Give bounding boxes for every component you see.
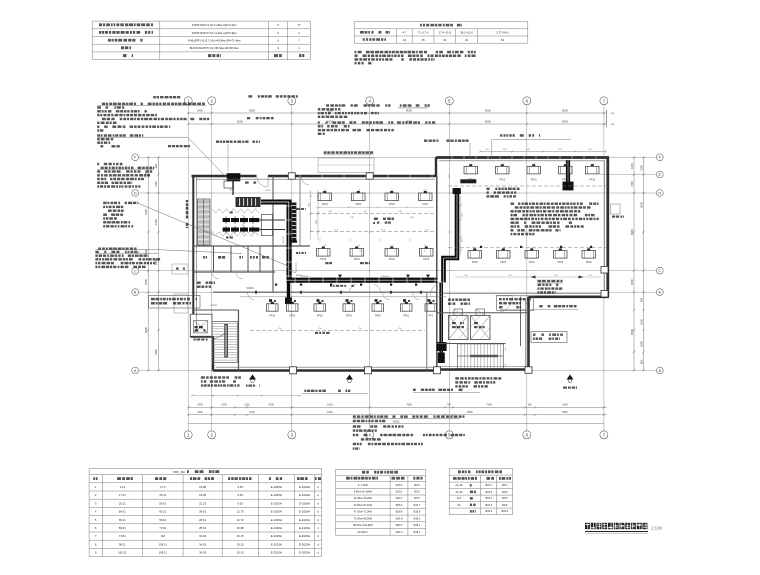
svg-text:FP33: FP33: [355, 203, 361, 206]
svg-text:FP1: FP1: [429, 315, 434, 318]
svg-text:22.4Kw<33.2kW: 22.4Kw<33.2kW: [354, 497, 373, 500]
svg-text:8000: 8000: [562, 109, 568, 113]
svg-text:8000: 8000: [630, 229, 634, 235]
svg-text:Φ22.2: Φ22.2: [485, 504, 492, 507]
svg-text:1:100: 1:100: [651, 525, 663, 530]
svg-text:FP22: FP22: [586, 261, 592, 264]
svg-text:u41: u41: [533, 163, 536, 165]
svg-text:P1: P1: [242, 216, 244, 218]
svg-text:32: 32: [443, 38, 447, 42]
svg-text:Φ25.4: Φ25.4: [396, 504, 403, 507]
svg-text:Φ19.1: Φ19.1: [396, 491, 403, 494]
svg-text:156.11: 156.11: [159, 542, 168, 546]
svg-text:4.7: 4.7: [402, 31, 406, 35]
svg-text:8200: 8200: [237, 120, 243, 124]
svg-text:Φ15.9: Φ15.9: [501, 510, 508, 513]
svg-text:FP50: FP50: [317, 315, 323, 318]
svg-text:Φ19.1: Φ19.1: [413, 517, 420, 520]
svg-text:400: 400: [154, 163, 158, 168]
svg-text:u40: u40: [391, 190, 394, 192]
svg-text:500: 500: [528, 404, 533, 407]
svg-text:1100: 1100: [154, 181, 158, 187]
svg-text:FP19: FP19: [423, 258, 429, 261]
svg-text:203: 203: [554, 275, 557, 277]
svg-text:E-2426H: E-2426H: [299, 526, 310, 530]
svg-text:E-1626H: E-1626H: [299, 510, 310, 514]
svg-text:20.1: 20.1: [588, 275, 592, 277]
svg-text:D: D: [658, 191, 661, 195]
svg-text:FP19: FP19: [320, 258, 326, 261]
svg-text:PY-3F: PY-3F: [296, 221, 298, 227]
svg-text:28.61: 28.61: [199, 518, 206, 522]
svg-text:E-3025H: E-3025H: [299, 542, 310, 546]
svg-text:P2: P2: [242, 225, 244, 227]
svg-text:8100: 8100: [562, 404, 568, 407]
svg-text:E-1025H: E-1025H: [271, 493, 282, 497]
svg-text:98.2Kw<104.6kW: 98.2Kw<104.6kW: [353, 524, 373, 527]
svg-text:FP19: FP19: [354, 258, 360, 261]
svg-text:15.88: 15.88: [199, 485, 206, 489]
svg-text:Φ15.9: Φ15.9: [413, 511, 420, 514]
svg-text:1400: 1400: [144, 209, 148, 215]
svg-text:FP11: FP11: [589, 179, 595, 182]
svg-text:7400: 7400: [486, 404, 492, 407]
svg-text:FP25: FP25: [500, 261, 506, 264]
svg-text:25.11: 25.11: [119, 501, 126, 505]
svg-text:9.53: 9.53: [237, 485, 243, 489]
svg-text:98.11: 98.11: [119, 542, 126, 546]
svg-text:12.70: 12.70: [237, 510, 244, 514]
svg-text:34.92: 34.92: [199, 542, 206, 546]
svg-text:W250: W250: [266, 190, 271, 192]
svg-text:E-2426H: E-2426H: [271, 526, 282, 530]
svg-text:2500: 2500: [639, 341, 643, 347]
svg-text:9.53: 9.53: [237, 501, 243, 505]
svg-text:Φ9.5: Φ9.5: [502, 504, 508, 507]
svg-text:2400: 2400: [154, 349, 158, 355]
svg-text:2400: 2400: [197, 411, 203, 414]
svg-text:Φ9.5: Φ9.5: [414, 484, 420, 487]
svg-text:114: 114: [457, 497, 462, 500]
svg-text:17.61: 17.61: [119, 493, 126, 497]
svg-text:400x250: 400x250: [301, 276, 310, 278]
svg-text:203: 203: [508, 275, 511, 277]
svg-text:Φ34.9: Φ34.9: [396, 524, 403, 527]
svg-text:E-1026H: E-1026H: [299, 493, 310, 497]
svg-text:56.61: 56.61: [159, 501, 166, 505]
svg-text:u40: u40: [358, 190, 361, 192]
svg-text:E-1026H: E-1026H: [299, 485, 310, 489]
svg-text:8100: 8100: [327, 404, 333, 407]
svg-text:W250: W250: [229, 190, 235, 192]
svg-text:FP32: FP32: [389, 203, 395, 206]
svg-text:BHXCV6L2P(7) KL=38.0kw kR=88.1: BHXCV6L2P(7) KL=38.0kw kR=88.1kw: [190, 46, 240, 50]
svg-text:FXDP140FVC KL=1.4kw GR=0.3kw: FXDP140FVC KL=1.4kw GR=0.3kw: [192, 31, 238, 35]
svg-text:FP51: FP51: [403, 315, 409, 318]
svg-text:33.0Kw<47.1kW: 33.0Kw<47.1kW: [354, 504, 373, 507]
svg-text:u41: u41: [391, 245, 394, 247]
svg-text:D: D: [134, 191, 137, 195]
svg-text:203: 203: [464, 275, 467, 277]
svg-text:900: 900: [639, 297, 643, 302]
svg-text:25: 25: [421, 38, 425, 42]
svg-text:E-3025H: E-3025H: [299, 551, 310, 555]
svg-text:u41: u41: [424, 245, 427, 247]
svg-text:M1020: M1020: [246, 287, 254, 290]
svg-text:19.15: 19.15: [237, 542, 244, 546]
svg-text:Φ19.1: Φ19.1: [413, 524, 420, 527]
svg-text:FP26: FP26: [472, 261, 478, 264]
svg-text:8500: 8500: [562, 120, 568, 124]
svg-text:2400: 2400: [197, 404, 203, 407]
svg-text:8000: 8000: [406, 109, 412, 113]
svg-text:156.11: 156.11: [118, 551, 127, 555]
svg-text:E-1625H: E-1625H: [271, 518, 282, 522]
svg-text:7500: 7500: [630, 181, 634, 187]
svg-text:Φ9.5: Φ9.5: [414, 491, 420, 494]
svg-text:u41: u41: [592, 163, 595, 165]
svg-text:FP13: FP13: [499, 179, 505, 182]
svg-text:250x120: 250x120: [283, 235, 285, 244]
svg-text:u41: u41: [324, 245, 327, 247]
svg-text:Φ9.5: Φ9.5: [502, 497, 508, 500]
svg-text:22.23: 22.23: [199, 501, 206, 505]
svg-text:7500: 7500: [639, 165, 643, 171]
svg-text:E-3125H: E-3125H: [271, 542, 282, 546]
svg-text:E-1626H: E-1626H: [299, 518, 310, 522]
svg-text:E: E: [659, 173, 662, 177]
svg-text:8200: 8200: [249, 109, 255, 113]
svg-text:77: 77: [297, 23, 301, 27]
svg-text:38.1~51.6: 38.1~51.6: [460, 31, 473, 35]
svg-text:3~7.4kW: 3~7.4kW: [358, 484, 369, 487]
svg-text:FP19: FP19: [389, 258, 395, 261]
svg-text:116: 116: [161, 534, 166, 538]
svg-text:15.88: 15.88: [237, 526, 244, 530]
svg-text:FP31: FP31: [531, 179, 537, 182]
svg-text:E-1025H: E-1025H: [271, 485, 282, 489]
svg-text:73.91: 73.91: [159, 526, 166, 530]
svg-text:9100: 9100: [327, 120, 333, 124]
svg-text:28.61: 28.61: [199, 510, 206, 514]
svg-text:7.1~17.4: 7.1~17.4: [418, 31, 429, 35]
svg-text:9.6Kw<Q<16kW: 9.6Kw<Q<16kW: [354, 491, 373, 494]
svg-text:Φ15.9: Φ15.9: [485, 491, 492, 494]
svg-text:Φ9.5: Φ9.5: [414, 497, 420, 500]
svg-text:28.61: 28.61: [199, 526, 206, 530]
svg-text:FP24: FP24: [529, 261, 535, 264]
svg-text:u40: u40: [424, 190, 427, 192]
svg-text:56.61: 56.61: [119, 510, 126, 514]
svg-text:8000: 8000: [144, 327, 148, 333]
svg-text:E-3125H: E-3125H: [271, 551, 282, 555]
svg-text:u40: u40: [324, 190, 327, 192]
svg-text:u41: u41: [565, 163, 568, 165]
svg-text:58.61: 58.61: [119, 526, 126, 530]
svg-text:Φ12.7: Φ12.7: [485, 484, 492, 487]
svg-text:Φ22.2: Φ22.2: [396, 497, 403, 500]
svg-text:C: C: [658, 269, 661, 273]
svg-text:VRV_RA: VRV_RA: [173, 470, 185, 474]
svg-text:24: 24: [403, 38, 407, 42]
svg-text:1000: 1000: [639, 319, 643, 325]
svg-text:FP14: FP14: [269, 315, 275, 318]
svg-text:700: 700: [447, 404, 452, 407]
svg-text:FP31: FP31: [422, 203, 428, 206]
svg-text:43~56: 43~56: [455, 491, 463, 494]
svg-text:M1522: M1522: [211, 305, 218, 307]
svg-text:E-1025H: E-1025H: [271, 501, 282, 505]
svg-text:9.53: 9.53: [237, 493, 243, 497]
svg-text:54: 54: [501, 38, 505, 42]
svg-text:8500: 8500: [630, 329, 634, 335]
svg-text:3.77~54.0: 3.77~54.0: [496, 31, 509, 35]
svg-text:2500: 2500: [639, 202, 643, 208]
svg-text:400x250: 400x250: [381, 276, 390, 278]
svg-text:6700: 6700: [249, 411, 255, 414]
svg-text:E-1625H: E-1625H: [271, 510, 282, 514]
svg-text:73.81: 73.81: [119, 534, 126, 538]
svg-text:FP23: FP23: [557, 261, 563, 264]
svg-text:Φ15.9: Φ15.9: [396, 484, 403, 487]
svg-text:Φ41.3: Φ41.3: [396, 531, 403, 534]
svg-text:2400: 2400: [197, 109, 203, 113]
svg-text:Φ9.5: Φ9.5: [502, 491, 508, 494]
svg-text:FN6x2PFYXL(17.0 kL=45.8kw 6R=7: FN6x2PFYXL(17.0 kL=45.8kw 6R=71.4kw: [188, 39, 242, 43]
svg-text:3.11: 3.11: [120, 485, 126, 489]
svg-text:1100: 1100: [244, 404, 250, 407]
svg-text:8000: 8000: [467, 411, 473, 414]
svg-text:47.1Kw<71.0kW: 47.1Kw<71.0kW: [354, 511, 373, 514]
svg-text:199.11: 199.11: [159, 551, 168, 555]
svg-text:1600: 1600: [630, 163, 634, 169]
svg-text:FXDP140FV1 GL=1.8kw GR=0.4kw: FXDP140FV1 GL=1.8kw GR=0.4kw: [192, 23, 238, 27]
svg-text:42000: 42000: [393, 420, 400, 423]
svg-text:65.11: 65.11: [159, 510, 166, 514]
svg-text:Φ12.7: Φ12.7: [413, 504, 420, 507]
svg-text:19.05: 19.05: [199, 493, 206, 497]
svg-text:FP23: FP23: [562, 179, 568, 182]
svg-text:22~28: 22~28: [455, 484, 463, 487]
svg-text:C: C: [134, 269, 137, 273]
svg-text:FP53: FP53: [346, 315, 352, 318]
svg-text:FP23: FP23: [468, 179, 474, 182]
svg-text:8100: 8100: [327, 411, 333, 414]
svg-text:65.11: 65.11: [119, 518, 126, 522]
svg-text:B: B: [134, 291, 137, 295]
svg-text:34.92: 34.92: [199, 551, 206, 555]
svg-text:850: 850: [639, 359, 643, 364]
svg-text:u41: u41: [502, 163, 505, 165]
svg-text:7800: 7800: [406, 404, 412, 407]
svg-text:A: A: [134, 369, 137, 373]
svg-text:B: B: [659, 291, 662, 295]
svg-text:19.15: 19.15: [237, 534, 244, 538]
svg-text:Φ34.9: Φ34.9: [485, 510, 492, 513]
svg-text:2500: 2500: [144, 279, 148, 285]
svg-text:1300: 1300: [144, 249, 148, 255]
svg-text:19.15: 19.15: [237, 551, 244, 555]
svg-text:Φ6.4: Φ6.4: [502, 484, 508, 487]
svg-text:E-3025H: E-3025H: [299, 534, 310, 538]
svg-text:104.6Kw<: 104.6Kw<: [357, 531, 369, 534]
svg-text:1400: 1400: [154, 219, 158, 225]
svg-text:Φ19.1: Φ19.1: [485, 497, 492, 500]
svg-text:17.4~31.8: 17.4~31.8: [439, 31, 452, 35]
svg-text:2000: 2000: [221, 404, 227, 407]
svg-text:8500: 8500: [562, 411, 568, 414]
svg-text:E-3125H: E-3125H: [271, 534, 282, 538]
svg-text:Φ31.8: Φ31.8: [396, 517, 403, 520]
svg-text:Φ28.6: Φ28.6: [396, 511, 403, 514]
svg-text:44: 44: [465, 38, 469, 42]
svg-text:34.92: 34.92: [199, 534, 206, 538]
svg-text:Φ19.1: Φ19.1: [413, 531, 420, 534]
svg-text:FP34: FP34: [322, 203, 328, 206]
svg-text:58.61: 58.61: [159, 518, 166, 522]
svg-text:E-1026H: E-1026H: [299, 501, 310, 505]
svg-text:2500: 2500: [630, 279, 634, 285]
svg-text:12.70: 12.70: [237, 518, 244, 522]
svg-text:8000: 8000: [485, 120, 491, 124]
svg-text:4200: 4200: [268, 404, 274, 407]
svg-text:FP13: FP13: [289, 315, 295, 318]
svg-text:u41: u41: [470, 163, 473, 165]
svg-text:25.11: 25.11: [159, 493, 166, 497]
svg-text:FP52: FP52: [375, 315, 381, 318]
svg-text:A: A: [659, 369, 662, 373]
svg-text:17.6: 17.6: [160, 485, 166, 489]
svg-text:8000: 8000: [485, 109, 491, 113]
svg-text:71.0Kw<98.2kW: 71.0Kw<98.2kW: [354, 517, 373, 520]
svg-text:u41: u41: [358, 245, 361, 247]
